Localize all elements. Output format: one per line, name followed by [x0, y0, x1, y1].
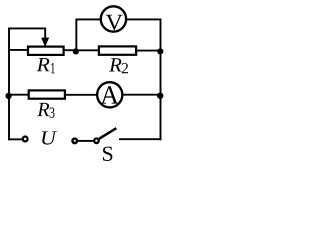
label R1 [37, 58, 50, 71]
ammeter circle [97, 82, 122, 107]
wire: R1 left lead [8, 49, 27, 51]
wire: junction up to voltmeter branch [75, 19, 77, 51]
wire: source to switch pivot [78, 140, 93, 142]
junction dot: R1 / R2 / voltmeter tap [73, 48, 79, 54]
voltmeter circle [101, 6, 126, 31]
wire: bottom left to source terminal [8, 138, 22, 140]
ammeter letter A [101, 86, 119, 103]
label U [42, 131, 57, 144]
junction dot: left bus / R3 [5, 93, 11, 99]
wire: ammeter right lead [123, 94, 160, 96]
wire: left vertical bus [8, 28, 10, 141]
switch S pivot contact [93, 137, 100, 144]
junction dot: R2 / right bus [157, 48, 163, 54]
wire: R2 right lead [137, 50, 161, 52]
resistor R3 [29, 90, 65, 98]
wire: R1 right lead to junction [64, 49, 76, 51]
resistor R1 (rheostat body) [28, 47, 64, 55]
terminal of source U (left) [22, 135, 29, 142]
wire: voltmeter to right vertical [127, 18, 161, 20]
wire: R3 left lead [8, 94, 28, 96]
wire: junction to R2 [75, 49, 99, 51]
wire: top horizontal to voltmeter [75, 18, 100, 20]
terminal of source U (right) [71, 137, 78, 144]
resistor R2 [99, 46, 136, 54]
wire: right vertical bus [160, 19, 162, 141]
label R3 [37, 103, 49, 116]
wire: R3 to ammeter [66, 94, 98, 96]
junction dot: ammeter / right bus [157, 93, 163, 99]
voltmeter letter V [106, 15, 123, 30]
switch S blade [99, 128, 116, 139]
wire: switch to right vertical [119, 138, 161, 140]
rheostat R1 wiper arrow [41, 28, 49, 48]
label R2 [109, 58, 122, 71]
wire: rheostat tap horizontal (top-left) [8, 27, 45, 29]
label S [103, 147, 112, 161]
